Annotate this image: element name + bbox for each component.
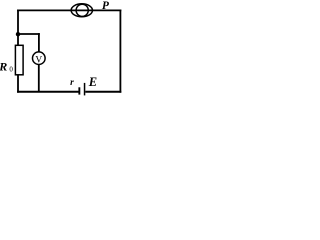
wire voltmeter bottom to bottom rail [38, 65, 40, 92]
resistor R0 box [15, 45, 23, 75]
battery cell E,r [78, 83, 85, 96]
wire left vertical lower (resistor bottom to corner) [17, 75, 19, 93]
wire top horizontal [17, 9, 121, 11]
svg-text:R: R [0, 60, 7, 74]
voltmeter V [33, 52, 46, 66]
label R0 [0, 60, 13, 74]
svg-text:E: E [88, 75, 97, 89]
lamp P (ellipse with inner circle) [71, 4, 92, 17]
svg-text:r: r [70, 78, 74, 88]
node junction dot [16, 32, 20, 36]
wire left vertical upper (corner to resistor top) [17, 10, 19, 46]
wire right vertical [119, 10, 121, 93]
wire branch horizontal (junction to voltmeter column) [18, 33, 40, 35]
svg-text:P: P [102, 0, 110, 12]
svg-text:0: 0 [9, 65, 13, 73]
svg-text:V: V [35, 55, 42, 65]
wire bottom rail left segment [17, 91, 79, 93]
wire bottom rail right segment [85, 91, 121, 93]
wire branch vertical down to voltmeter [38, 33, 40, 52]
